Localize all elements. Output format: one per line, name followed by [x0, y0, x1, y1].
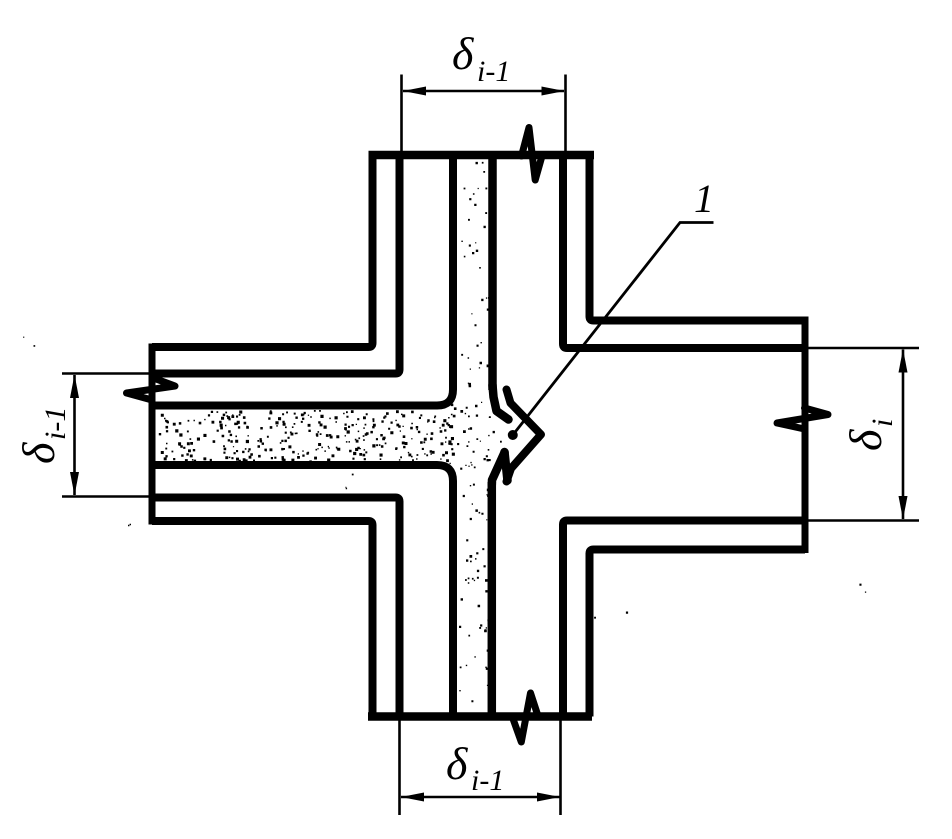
extension line top of left dimension	[62, 372, 149, 375]
dimension label delta i-1 (bottom)	[446, 738, 504, 797]
leader dot on weld seam	[508, 430, 518, 440]
lower pipe inner-right wall line joining right pipe inner-bottom wall	[563, 521, 805, 717]
break symbol on left pipe end	[127, 378, 176, 401]
extension line bottom of left dimension	[62, 495, 149, 498]
upper pipe lining right boundary line	[488, 151, 497, 390]
top dimension right arrowhead	[542, 87, 565, 96]
upper pipe lining-layer left boundary curving into left pipe lining top boundary	[152, 151, 453, 406]
upper pipe inner-right wall line joining right pipe inner-top wall	[563, 151, 805, 348]
extension line left of top dimension	[400, 75, 403, 152]
right dimension lower arrowhead	[899, 496, 908, 520]
lower pipe lining-layer left boundary curving into left pipe lining bottom boundary	[152, 465, 453, 717]
lower pipe outer-left wall line joining left pipe outer-bottom wall	[152, 521, 373, 717]
break symbol on right pipe end	[777, 408, 828, 429]
left pipe end edge	[149, 344, 156, 525]
upper pipe outer-right wall line joining right pipe outer-top wall	[590, 151, 806, 321]
leader line from weld to callout 1	[513, 223, 714, 436]
extension line top of right dimension	[807, 347, 919, 350]
right dimension upper arrowhead	[899, 349, 908, 373]
svg-text:1: 1	[694, 176, 714, 221]
top dimension left arrowhead	[403, 87, 426, 96]
svg-text:i-1: i-1	[39, 407, 72, 440]
right pipe end edge	[802, 317, 809, 554]
dimension label delta i (right, rotated)	[840, 419, 899, 451]
break symbol on upper pipe end	[522, 128, 543, 181]
weld seam 1: chevron bead outline	[507, 390, 542, 482]
lower pipe inner-left wall line joining left pipe inner-bottom wall	[152, 498, 400, 717]
left dimension line	[73, 375, 76, 495]
stipple texture at pipe crossing center	[440, 402, 502, 470]
svg-text:δ: δ	[840, 429, 891, 451]
svg-text:i-1: i-1	[471, 764, 504, 797]
stipple texture of lining in upper pipe	[461, 162, 490, 387]
stipple texture of lining in left pipe	[159, 410, 455, 463]
extension line right of bottom dimension	[559, 719, 562, 815]
top dimension line	[403, 90, 564, 93]
extension line right of top dimension	[564, 75, 567, 152]
bottom dimension left arrowhead	[401, 793, 424, 802]
lower pipe lining right boundary line	[488, 482, 497, 717]
upper pipe top end edge	[369, 151, 595, 160]
weld seam 1: lower lining edge hook	[492, 453, 505, 486]
bottom dimension right arrowhead	[537, 793, 560, 802]
extension line left of bottom dimension	[398, 719, 401, 815]
extension line bottom of right dimension	[807, 519, 919, 522]
upper pipe outer-left wall line joining left pipe outer-top wall	[152, 151, 373, 347]
left dimension upper arrowhead	[70, 375, 79, 399]
lower pipe bottom end edge	[368, 712, 592, 721]
dimension label delta i-1 (top)	[452, 28, 510, 88]
svg-text:δ: δ	[446, 738, 468, 789]
upper pipe inner-left wall line joining left pipe inner-top wall	[152, 151, 400, 374]
lower pipe outer-right wall line joining right pipe outer-bottom wall	[590, 550, 806, 717]
weld seam 1: lower bead riser	[505, 452, 508, 481]
svg-text:i: i	[866, 419, 899, 427]
scan noise specks	[23, 337, 866, 619]
right dimension line	[902, 350, 905, 520]
stipple texture of lining in lower pipe	[459, 484, 491, 703]
bottom dimension line	[401, 796, 560, 799]
callout label 1	[694, 176, 714, 221]
break symbol on lower pipe end	[512, 693, 538, 742]
left dimension lower arrowhead	[70, 472, 79, 496]
svg-text:δ: δ	[452, 28, 474, 79]
svg-text:i-1: i-1	[477, 55, 510, 88]
dimension label delta i-1 (left, rotated)	[13, 407, 72, 464]
svg-text:δ: δ	[13, 442, 64, 464]
weld seam 1: upper lining edge hook	[493, 385, 509, 420]
